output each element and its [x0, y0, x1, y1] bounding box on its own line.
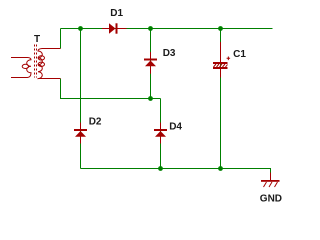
svg-text:D2: D2	[89, 116, 102, 127]
svg-text:D3: D3	[163, 48, 176, 59]
svg-text:GND: GND	[260, 193, 282, 204]
svg-text:C1: C1	[233, 49, 246, 60]
svg-text:T: T	[34, 34, 40, 45]
svg-text:D1: D1	[110, 8, 123, 19]
svg-text:D4: D4	[169, 121, 182, 132]
